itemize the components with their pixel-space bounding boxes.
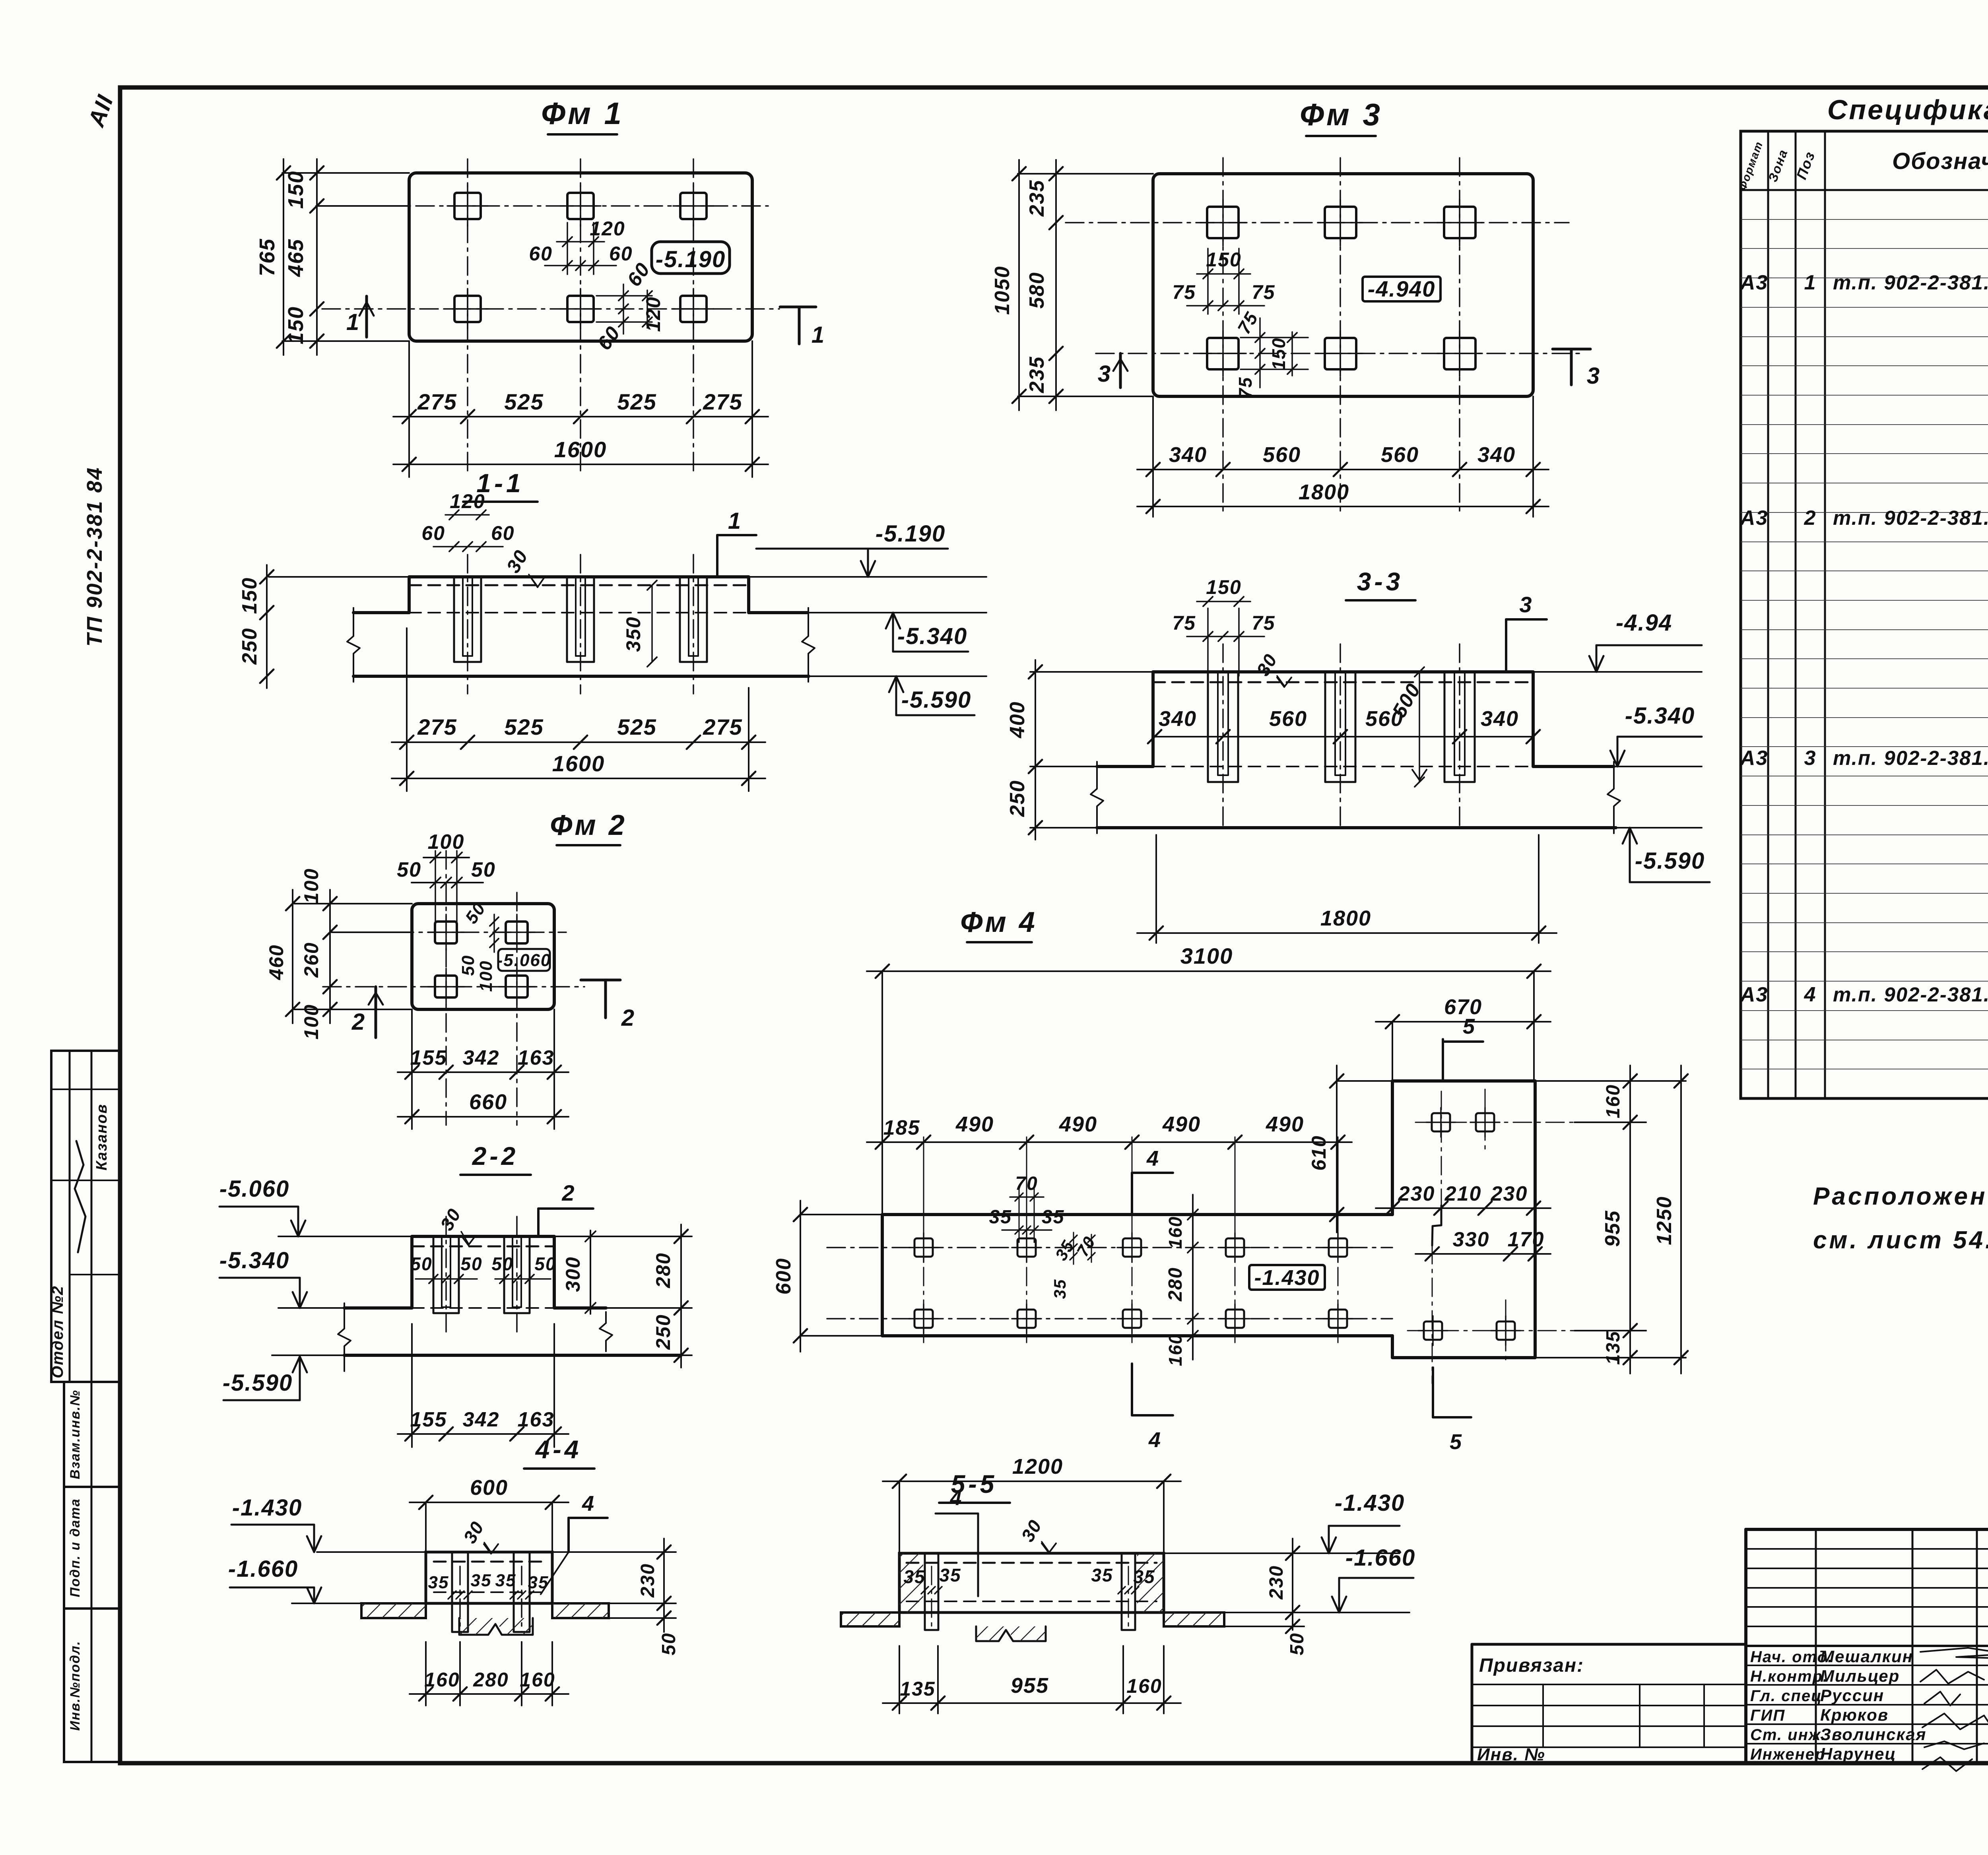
privyazan row line 3: [1472, 1705, 1746, 1706]
section 2-2 dim 300: [590, 1230, 591, 1314]
svg-text:-1.660: -1.660: [228, 1556, 298, 1582]
title block small grid row 3: [1746, 1587, 1988, 1589]
svg-text:АII: АII: [83, 91, 118, 131]
plan Fm3 lower ext: [1152, 396, 1154, 517]
section 4-4 right dim 230-50: [663, 1539, 665, 1632]
svg-text:30: 30: [436, 1205, 465, 1234]
svg-text:525: 525: [504, 389, 544, 414]
svg-text:Спецификация фундаментов Фм1÷: Спецификация фундаментов Фм1÷Фм4: [1827, 94, 1988, 125]
svg-text:4: 4: [1148, 1428, 1161, 1452]
svg-text:Фм 3: Фм 3: [1300, 97, 1382, 132]
svg-text:Мильцер: Мильцер: [1820, 1667, 1900, 1685]
plan Fm2 bottom dim 1: [398, 1071, 569, 1073]
title block signature 5: [1924, 1741, 1984, 1749]
plan Fm2 lower ext b: [553, 1009, 555, 1129]
title block grid vline 2: [1912, 1529, 1914, 1763]
plan Fm2 anchor square 4: [499, 968, 535, 1005]
plan Fm4 section mark 4 top: [1131, 1173, 1133, 1215]
plan Fm4 long square bottom 4: [1220, 1304, 1250, 1333]
svg-text:30: 30: [1017, 1516, 1046, 1545]
svg-text:250: 250: [1006, 780, 1029, 817]
privyazan block top: [1472, 1643, 1746, 1646]
svg-text:2: 2: [561, 1180, 575, 1205]
plan Fm1 mini dim 120 line: [557, 241, 604, 243]
svg-text:160: 160: [1603, 1084, 1624, 1118]
svg-text:155: 155: [410, 1046, 447, 1069]
svg-text:Поз: Поз: [1793, 149, 1818, 182]
plan Fm4 dim 330-170: [1415, 1253, 1551, 1255]
svg-text:35: 35: [495, 1571, 516, 1590]
svg-text:Привязан:: Привязан:: [1479, 1655, 1584, 1676]
plan Fm3 bottom dim 2: [1137, 506, 1549, 507]
section 3-3 cut mark 3 top: [1505, 619, 1507, 672]
section 5-5 title underline: [939, 1502, 1010, 1504]
plan Fm3 bottom dim 1: [1137, 469, 1549, 470]
svg-text:1800: 1800: [1299, 480, 1349, 504]
section 4-4 bolt pocket 1: [452, 1552, 468, 1632]
section 3-3 mini dim 75-75: [1187, 636, 1264, 637]
svg-text:525: 525: [617, 714, 656, 739]
left stamp box Vzam divider: [91, 1382, 93, 1487]
svg-text:см. лист 54.: см. лист 54.: [1813, 1226, 1988, 1254]
svg-text:160: 160: [1126, 1675, 1162, 1697]
svg-text:1800: 1800: [1320, 906, 1371, 930]
left stamp box Inv N podl: [64, 1609, 120, 1762]
section 5-5 inner dash low: [907, 1601, 1157, 1602]
svg-text:160: 160: [424, 1669, 460, 1691]
section 3-3 bolt pocket 3: [1444, 672, 1475, 782]
svg-text:1: 1: [812, 322, 825, 348]
svg-text:1: 1: [728, 508, 742, 534]
section 3-3 dim 500: [1419, 672, 1420, 782]
plan Fm1 row centerline top: [318, 205, 768, 207]
plan Fm4 long square top 1: [909, 1233, 938, 1262]
plan Fm2 left ext row1: [332, 931, 412, 933]
section 3-3 body outline: [1097, 672, 1614, 766]
svg-text:160: 160: [520, 1669, 555, 1691]
svg-text:580: 580: [1025, 272, 1048, 309]
section 4-4 grout dash: [434, 1561, 544, 1563]
svg-text:3: 3: [1804, 747, 1817, 770]
svg-text:-5.190: -5.190: [656, 246, 726, 272]
title block small grid row 5: [1746, 1626, 1988, 1627]
plan Fm2 left ext top: [294, 903, 412, 904]
plan Fm3 col centerline 2: [1340, 158, 1341, 513]
plan Fm4 long square top 4: [1220, 1233, 1250, 1262]
svg-text:1600: 1600: [552, 751, 605, 776]
section 3-3 bolt pocket 2: [1325, 672, 1355, 782]
spec table col line 2: [1795, 131, 1797, 1098]
plan Fm2 row centerline top: [330, 931, 566, 933]
plan Fm4 right dim outer: [1680, 1065, 1682, 1374]
svg-text:30: 30: [503, 546, 532, 576]
svg-text:525: 525: [617, 389, 656, 414]
plan Fm2 dim 100 line: [423, 857, 469, 858]
plan Fm4 right ext lines: [1535, 1080, 1686, 1082]
svg-text:250: 250: [652, 1314, 674, 1350]
section 2-2 bolt pocket 1: [433, 1236, 459, 1313]
svg-text:400: 400: [1006, 701, 1029, 739]
section 3-3 bottom dim 1800: [1137, 932, 1557, 934]
section 2-2 right dim 280-250: [680, 1224, 682, 1368]
section 4-4 right ext: [552, 1551, 676, 1553]
svg-text:260: 260: [300, 942, 322, 978]
svg-text:525: 525: [504, 714, 544, 739]
svg-text:230: 230: [637, 1563, 658, 1598]
svg-text:75: 75: [1172, 612, 1196, 634]
left stamp upper box: [51, 1051, 120, 1382]
section 3-3 ledge hidden dash: [1153, 766, 1533, 767]
svg-text:560: 560: [1269, 707, 1307, 731]
section 4-4 dim 600 top: [410, 1502, 569, 1503]
plan Fm2 anchor square 1: [428, 914, 464, 950]
plan Fm4 block square t1: [1426, 1108, 1456, 1137]
section 2-2 ledge hidden dash: [412, 1307, 554, 1309]
title block signature 6: [1922, 1757, 1972, 1771]
svg-text:75: 75: [1235, 376, 1256, 398]
svg-text:Зволинская: Зволинская: [1820, 1725, 1926, 1744]
plan Fm3 left dim outer: [1018, 160, 1020, 410]
svg-text:-5.190: -5.190: [876, 521, 945, 547]
plan Fm4 mini dim 35-35: [1002, 1229, 1052, 1231]
svg-text:955: 955: [1601, 1210, 1624, 1247]
svg-text:35: 35: [1133, 1566, 1155, 1587]
svg-text:340: 340: [1169, 443, 1207, 467]
plan Fm1 col centerline 2: [580, 159, 581, 475]
section 5-5 right dim 230-50: [1292, 1539, 1293, 1630]
svg-text:280: 280: [473, 1669, 509, 1691]
svg-text:610: 610: [1308, 1135, 1330, 1170]
section 3-3 left ext: [1030, 671, 1153, 673]
svg-text:т.п. 902-2-381.84 КЖИ-С12: т.п. 902-2-381.84 КЖИ-С12: [1833, 747, 1988, 769]
svg-text:Отдел №2: Отдел №2: [49, 1285, 66, 1378]
section 3-3 pocket centerline 2: [1340, 644, 1341, 828]
section 5-5 floor hatch right: [1164, 1612, 1224, 1626]
plan Fm3 left ext bottom: [1018, 396, 1153, 397]
svg-text:150: 150: [1206, 576, 1241, 598]
section 2-2 bottom dim: [398, 1433, 569, 1435]
plan Fm2 slab outline: [412, 904, 554, 1009]
svg-text:280: 280: [1165, 1267, 1186, 1302]
svg-text:-5.590: -5.590: [1635, 848, 1705, 874]
svg-text:4: 4: [1804, 983, 1817, 1006]
svg-text:600: 600: [772, 1258, 795, 1295]
plan Fm4 long square top 2: [1012, 1233, 1041, 1262]
section 1-1 mini dim 60-60: [433, 546, 503, 547]
plan Fm4 mini vert dims: [1073, 1232, 1074, 1264]
privyazan block left: [1471, 1644, 1474, 1763]
plan Fm3 left ext top: [1018, 173, 1153, 175]
left stamp upper box col line 1: [69, 1051, 71, 1382]
svg-text:163: 163: [518, 1408, 555, 1431]
svg-text:155: 155: [410, 1408, 447, 1431]
svg-text:60: 60: [609, 243, 633, 265]
svg-text:1200: 1200: [1012, 1455, 1063, 1479]
title block sig row line 1: [1746, 1665, 1988, 1666]
plan Fm4 long square bottom 1: [909, 1304, 938, 1333]
svg-text:100: 100: [476, 960, 496, 992]
svg-text:275: 275: [417, 714, 457, 739]
plan Fm1 left dim line inner: [316, 159, 318, 355]
section 4-4 bottom dim: [410, 1693, 569, 1695]
plan Fm3 mini vert 75-75: [1259, 318, 1261, 388]
svg-text:275: 275: [417, 389, 457, 414]
section 1-1 left dim line: [266, 565, 268, 688]
section 3-3 lower ext: [1155, 835, 1157, 943]
left stamp upper box col line 2: [91, 1051, 93, 1382]
section 3-3 inner dim line: [1155, 736, 1533, 737]
svg-text:1: 1: [346, 309, 360, 335]
plan Fm4 col centerline 3: [1132, 1137, 1133, 1343]
svg-text:460: 460: [265, 944, 287, 980]
svg-text:60: 60: [593, 322, 625, 354]
plan Fm4 block square b1: [1418, 1316, 1448, 1345]
svg-text:275: 275: [703, 714, 742, 739]
title block outer top line: [1746, 1528, 1988, 1531]
svg-text:35: 35: [939, 1565, 961, 1585]
spec table row grid: [1741, 219, 1988, 1069]
svg-text:Инв. №: Инв. №: [1477, 1745, 1545, 1764]
section 2-2 pocket centerline 2: [516, 1217, 518, 1332]
section 4-4 bolt pocket 2: [514, 1552, 530, 1632]
svg-text:3: 3: [1587, 363, 1600, 389]
svg-text:75: 75: [1252, 612, 1276, 634]
section 2-2 title underline: [460, 1174, 531, 1176]
section 1-1 pocket centerline 3: [693, 555, 694, 694]
section 1-1 bottom dim line 2: [392, 778, 765, 779]
svg-text:1250: 1250: [1653, 1196, 1676, 1245]
svg-text:135: 135: [1603, 1331, 1624, 1365]
section 1-1 level -5.590: [896, 714, 975, 716]
svg-text:340: 340: [1159, 707, 1197, 731]
privyazan vline 1: [1542, 1684, 1544, 1747]
plan Fm4 block col centerline jog: [1441, 1091, 1442, 1205]
svg-text:160: 160: [1165, 1216, 1186, 1249]
plan Fm4 outline: [882, 1213, 1392, 1216]
svg-text:1: 1: [1804, 271, 1817, 294]
svg-text:Инв.№подл.: Инв.№подл.: [68, 1640, 83, 1731]
plan Fm4 block square t2: [1470, 1108, 1500, 1137]
section 1-1 bolt pocket 1: [454, 577, 481, 662]
plan Fm3 section mark 3 right: [1553, 348, 1590, 351]
svg-text:660: 660: [469, 1090, 507, 1114]
svg-text:А3: А3: [1739, 747, 1768, 770]
svg-text:340: 340: [1481, 707, 1519, 731]
plan Fm1 row centerline bottom: [322, 308, 779, 310]
section 1-1 level -5.190: [756, 548, 948, 550]
svg-text:50: 50: [397, 858, 421, 881]
left stamp signature squiggle: [75, 1141, 85, 1252]
section 2-2 lower ext: [411, 1324, 413, 1447]
svg-text:Фм 1: Фм 1: [541, 96, 624, 131]
svg-text:150: 150: [238, 577, 261, 614]
plan Fm4 section mark 4 bottom: [1131, 1364, 1133, 1415]
svg-text:60: 60: [529, 243, 553, 265]
left stamp upper box row line 1: [51, 1089, 120, 1090]
title block sig row line 5: [1746, 1743, 1988, 1744]
svg-text:ГИП: ГИП: [1750, 1707, 1785, 1724]
plan Fm4 long row centerline 1: [827, 1247, 1392, 1248]
section 2-2 cut mark 2 top: [537, 1209, 540, 1236]
svg-text:35: 35: [903, 1566, 925, 1587]
svg-text:2: 2: [621, 1005, 635, 1031]
section 5-5 floor hatch left: [841, 1612, 899, 1626]
svg-text:35: 35: [1091, 1565, 1113, 1585]
section 5-5 floor slab left: [841, 1612, 899, 1626]
plan Fm1 col centerline 3: [693, 159, 694, 475]
section 3-3 pocket centerline 1: [1222, 644, 1224, 828]
spec row Setka C11: [1739, 504, 1988, 530]
svg-text:75: 75: [1233, 308, 1262, 338]
title block signature 3: [1924, 1692, 1960, 1706]
plan Fm1 mini vert dim 60-60: [623, 284, 624, 334]
plan Fm2 lower ext a: [411, 1009, 413, 1129]
svg-text:600: 600: [470, 1476, 508, 1500]
svg-text:-1.430: -1.430: [232, 1495, 302, 1521]
svg-text:490: 490: [1059, 1112, 1097, 1136]
svg-text:А3: А3: [1739, 983, 1768, 1006]
section 3-3 slab bottom: [1097, 826, 1616, 829]
section 4-4 floor slab left: [361, 1603, 426, 1618]
svg-text:3: 3: [1519, 592, 1532, 617]
svg-text:4: 4: [582, 1492, 595, 1515]
svg-text:Мешалкин: Мешалкин: [1820, 1647, 1913, 1666]
left stamp box Vzam inv N: [64, 1382, 120, 1487]
section 2-2 break right: [600, 1312, 612, 1351]
section 2-2 right ext lines: [554, 1236, 692, 1237]
svg-text:340: 340: [1477, 443, 1516, 467]
plan Fm3 anchor square 6: [1437, 331, 1482, 376]
svg-text:Обозначение: Обозначение: [1892, 148, 1988, 174]
plan Fm2 elevation box -5.060: [498, 949, 550, 971]
svg-text:-1.430: -1.430: [1254, 1266, 1320, 1290]
plan Fm1 slab outline: [409, 173, 752, 341]
svg-text:50: 50: [410, 1253, 432, 1274]
plan Fm4 section mark 5 top: [1442, 1039, 1444, 1081]
svg-text:А3: А3: [1739, 271, 1768, 294]
section 1-1 level -5.340: [893, 651, 968, 653]
left stamp upper box row line 3: [70, 1274, 120, 1275]
svg-text:т.п. 902-2-381.84 КЖИ-С10: т.п. 902-2-381.84 КЖИ-С10: [1833, 271, 1988, 294]
plan Fm1 ext line right lower: [751, 341, 753, 477]
section 2-2 slab bottom: [344, 1354, 681, 1357]
section 1-1 ledge hidden dash: [409, 612, 749, 613]
svg-text:-4.94: -4.94: [1616, 610, 1672, 636]
svg-text:1050: 1050: [991, 266, 1014, 315]
plan Fm2 row centerline bottom: [323, 986, 584, 988]
svg-text:275: 275: [703, 389, 742, 414]
title block small grid row 4: [1746, 1606, 1988, 1608]
privyazan row line 5: [1472, 1746, 1746, 1748]
plan Fm4 col centerline 2: [1026, 1137, 1027, 1343]
plan Fm4 col ext lines: [923, 1149, 924, 1236]
title block signature 1: [1920, 1648, 1988, 1659]
plan Fm2 col centerline 1: [445, 851, 447, 1125]
plan Fm2 section mark 2 right: [581, 979, 620, 982]
plan Fm3 anchor square 1: [1200, 200, 1246, 246]
plan Fm2 anchor square 2: [499, 914, 535, 950]
section 3-3 grout dash: [1153, 681, 1533, 683]
section 1-1 pocket centerline 2: [580, 555, 581, 694]
plan Fm2 left dim inner: [329, 890, 331, 1023]
section 5-5 dim 1200: [883, 1481, 1181, 1482]
plan Fm1 anchor square 4: [447, 289, 488, 329]
svg-text:75: 75: [1172, 281, 1196, 303]
section 2-2 dim 50 ticks: [415, 1278, 477, 1280]
section 3-3 break left: [1091, 762, 1103, 833]
svg-text:35: 35: [471, 1571, 492, 1590]
svg-text:60: 60: [491, 522, 515, 544]
svg-text:Руссин: Руссин: [1820, 1686, 1884, 1705]
svg-text:-5.060: -5.060: [497, 951, 551, 970]
svg-text:Нарунец: Нарунец: [1820, 1744, 1896, 1763]
svg-text:230: 230: [1491, 1182, 1528, 1205]
svg-text:-4.940: -4.940: [1368, 276, 1436, 301]
svg-text:Казанов: Казанов: [93, 1104, 110, 1170]
svg-text:Взам.инв.№: Взам.инв.№: [68, 1389, 83, 1479]
svg-text:-5.590: -5.590: [901, 687, 971, 713]
svg-text:-5.340: -5.340: [219, 1248, 289, 1273]
plan Fm1 left dim line outer: [283, 159, 284, 355]
svg-text:465: 465: [284, 239, 308, 277]
svg-text:1600: 1600: [554, 437, 607, 462]
plan Fm2 col centerline 2: [516, 893, 518, 1125]
svg-text:50: 50: [471, 858, 496, 881]
svg-text:3: 3: [1098, 361, 1111, 387]
plan Fm4 block col centerline b2: [1505, 1300, 1507, 1364]
section 2-2 bolt pocket 2: [504, 1236, 530, 1313]
plan Fm3 anchor square 2: [1318, 200, 1363, 246]
section 3-3 mini dim 150: [1197, 601, 1250, 602]
privyazan vline 2: [1639, 1684, 1640, 1747]
svg-text:230: 230: [1266, 1565, 1287, 1600]
title block sig row line 3: [1746, 1704, 1988, 1706]
plan Fm4 col centerline 5: [1338, 1137, 1339, 1343]
title block signature 2: [1920, 1670, 1984, 1684]
section 1-1 bottom dim line 1: [392, 741, 765, 743]
plan Fm1 anchor square 3: [673, 186, 714, 226]
plan Fm3 anchor square 4: [1200, 331, 1246, 376]
plan Fm1 anchor square 5: [560, 289, 601, 329]
svg-text:3-3: 3-3: [1357, 567, 1404, 596]
plan Fm3 row centerline bottom: [1096, 353, 1584, 354]
svg-text:35: 35: [1050, 1279, 1069, 1299]
spec table outer: [1741, 131, 1988, 1098]
section 4-4 inner dash low: [434, 1591, 544, 1593]
svg-text:т.п. 902-2-381.84 КЖИ-С11: т.п. 902-2-381.84 КЖИ-С11: [1833, 506, 1988, 529]
svg-text:135: 135: [900, 1678, 935, 1700]
title block signature 4: [1922, 1713, 1988, 1729]
plan Fm1 mini dim 60-60 line: [545, 265, 616, 266]
svg-text:163: 163: [518, 1046, 555, 1069]
svg-text:170: 170: [1508, 1228, 1545, 1251]
plan Fm1 bottom dim line 1: [393, 416, 768, 417]
plan Fm3 title underline: [1306, 135, 1376, 137]
section 5-5 hatch inside pedestal: [899, 1553, 923, 1612]
section 1-1 grout dash line: [409, 584, 749, 586]
plan Fm4 section mark 5 bottom: [1432, 1368, 1434, 1417]
svg-text:70: 70: [1015, 1173, 1038, 1194]
svg-text:280: 280: [652, 1252, 674, 1288]
plan Fm1 title underline: [548, 133, 617, 136]
svg-text:-5.060: -5.060: [219, 1176, 289, 1202]
plan Fm4 dim 610: [1336, 1065, 1338, 1232]
section 1-1 bolt pocket 3: [680, 577, 707, 662]
plan Fm4 long square top 3: [1117, 1233, 1147, 1262]
title block grid vline 3: [1976, 1529, 1978, 1763]
section 4-4 cut mark 4: [567, 1518, 570, 1552]
section 3-3 break right: [1607, 762, 1620, 833]
